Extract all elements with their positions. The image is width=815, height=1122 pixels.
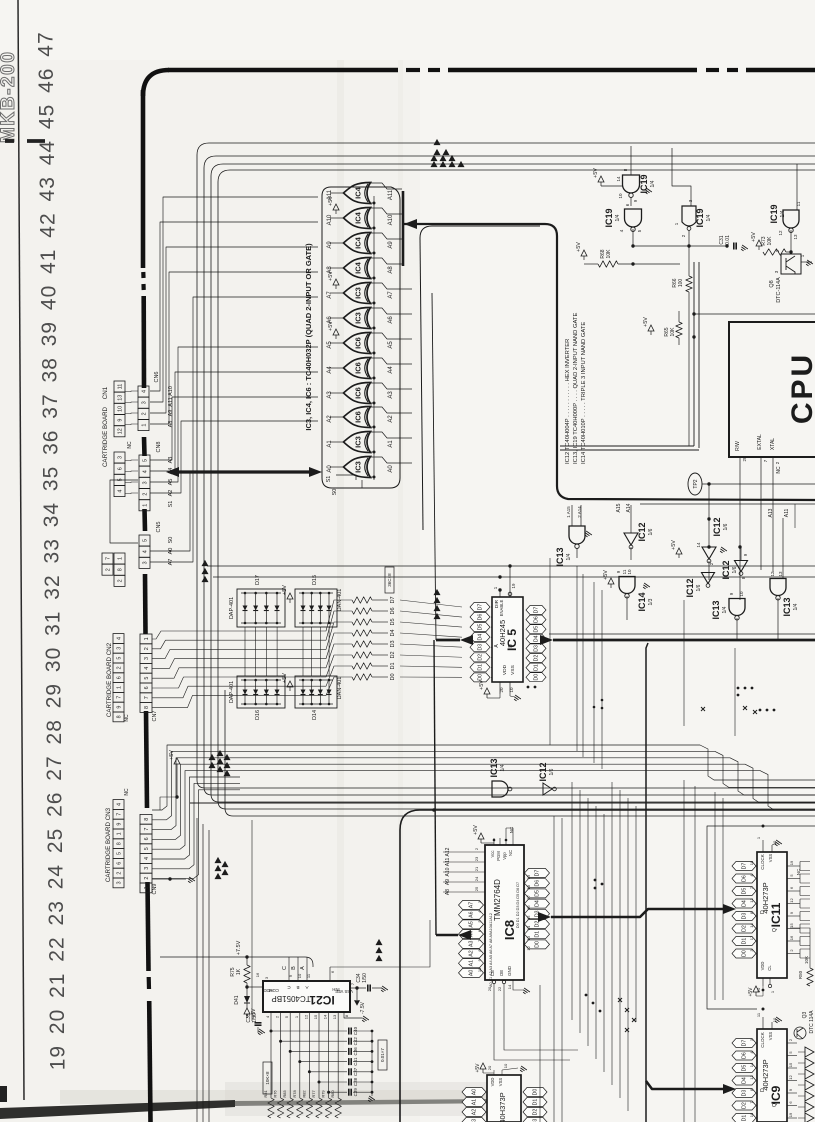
- junction: [371, 1091, 374, 1094]
- svg-text:14: 14: [323, 1014, 328, 1019]
- junction: [599, 1010, 602, 1013]
- svg-text:28: 28: [742, 456, 747, 462]
- main border corner: [143, 70, 169, 96]
- wire: [491, 626, 492, 628]
- svg-text:D0: D0: [533, 1089, 539, 1096]
- svg-text:NC: NC: [124, 714, 130, 722]
- wire: [370, 183, 402, 189]
- wire: [694, 786, 696, 1122]
- IC9 flag D5: [732, 1064, 756, 1073]
- or-gate UIC3 A0: [344, 457, 371, 478]
- wire: [370, 283, 412, 289]
- IC8 flag D0: [525, 940, 550, 949]
- junction: [707, 545, 710, 548]
- wire +7.5V rail: [160, 956, 305, 958]
- svg-text:D5: D5: [390, 618, 396, 625]
- page edge scan line: [18, 0, 24, 1100]
- svg-text:36C×8: 36C×8: [387, 573, 392, 587]
- wire: [756, 1117, 757, 1119]
- junction: [373, 426, 376, 429]
- CN7 pin box 4: [140, 663, 152, 673]
- svg-text:35: 35: [40, 466, 63, 491]
- double box line h: [560, 445, 694, 447]
- IC10 flag right: [523, 1118, 547, 1122]
- bus tap arrow: [376, 939, 383, 945]
- IC5 bottom pins: [499, 682, 501, 694]
- svg-text:A1: A1: [472, 1099, 478, 1105]
- wire: [330, 392, 344, 394]
- wire: [353, 1040, 372, 1042]
- svg-text:33: 33: [41, 538, 64, 563]
- svg-text:IC4: IC4: [354, 186, 363, 199]
- bus tap arrow: [434, 605, 441, 611]
- svg-text:R76: R76: [273, 1090, 278, 1098]
- svg-text:4: 4: [142, 470, 148, 473]
- svg-text:D5: D5: [742, 888, 748, 895]
- bus band wire: [240, 751, 815, 787]
- wire: [152, 745, 240, 810]
- wire: [688, 246, 690, 276]
- or IC19c: [682, 206, 696, 226]
- bus entry arrow: [458, 930, 471, 940]
- wire: [330, 416, 344, 418]
- wire: [152, 751, 240, 819]
- wire: [756, 928, 757, 930]
- svg-text:1/4: 1/4: [706, 214, 712, 221]
- wire: [370, 208, 402, 214]
- wire: [372, 654, 388, 656]
- svg-text:2: 2: [142, 493, 148, 496]
- svg-text:IC13: IC13: [711, 600, 721, 619]
- svg-text:OE: OE: [499, 970, 504, 977]
- svg-text:S0: S0: [332, 489, 338, 496]
- IC5 flag D6 left: [470, 613, 490, 622]
- svg-text:A3: A3: [469, 941, 475, 947]
- junction: [744, 687, 747, 690]
- CN5 bracket: [110, 480, 138, 543]
- IC8 flag A4: [459, 930, 484, 939]
- wire: [308, 1012, 310, 1098]
- resistor R40: [352, 597, 372, 603]
- junction: [737, 687, 740, 690]
- svg-text:20: 20: [487, 1065, 492, 1070]
- junction: [373, 302, 376, 305]
- CN8 pin box 5: [139, 455, 150, 466]
- junction: [371, 1050, 374, 1053]
- svg-text:D1: D1: [390, 662, 396, 669]
- svg-text:100: 100: [678, 279, 684, 288]
- svg-text:CN9: CN9: [152, 883, 158, 894]
- svg-text:S1: S1: [326, 476, 332, 483]
- transistor Q8: [781, 254, 801, 274]
- wire: [319, 627, 321, 676]
- CN8 pin box 4: [139, 466, 150, 477]
- CN7 pin box 7: [140, 693, 152, 703]
- IC8 flag A1: [459, 959, 484, 968]
- svg-text:D5: D5: [478, 624, 484, 631]
- junction: [373, 476, 376, 479]
- capacitor C35: [255, 1022, 262, 1024]
- wire: [756, 890, 757, 892]
- wire: [152, 790, 240, 879]
- svg-text:40H245: 40H245: [498, 620, 507, 646]
- thick wire: [551, 909, 723, 917]
- wire: [400, 644, 462, 647]
- wire: [289, 1012, 291, 1098]
- svg-text:B: B: [291, 966, 297, 970]
- cross mark: [632, 1018, 636, 1022]
- svg-text:+5V: +5V: [593, 168, 599, 178]
- bus tap arrow: [217, 750, 224, 756]
- svg-text:1/3: 1/3: [648, 598, 654, 605]
- junction: [759, 709, 762, 712]
- wire: [484, 943, 485, 945]
- wire: [328, 1012, 330, 1098]
- bus wire 4: [218, 170, 815, 809]
- svg-text:IC3, IC4, IC6 : TC40H032P (QUA: IC3, IC4, IC6 : TC40H032P (QUAD 2-INPUT …: [304, 243, 313, 431]
- buffer triangle: [805, 1058, 814, 1068]
- svg-text:+5V: +5V: [576, 242, 582, 252]
- junction: [373, 202, 376, 205]
- svg-text:IC4: IC4: [354, 211, 363, 224]
- wire: [787, 915, 800, 917]
- wire: [524, 923, 525, 925]
- svg-text:21: 21: [46, 973, 69, 998]
- CN2 pin box 1: [113, 683, 124, 693]
- junction: [498, 575, 501, 578]
- svg-text:IC19: IC19: [769, 204, 779, 223]
- svg-text:30: 30: [42, 647, 65, 672]
- svg-text:D6: D6: [534, 616, 540, 623]
- svg-text:VSS: VSS: [768, 854, 773, 863]
- svg-text:9: 9: [116, 823, 122, 826]
- svg-text:14: 14: [749, 923, 754, 928]
- svg-text:D1: D1: [478, 664, 484, 671]
- svg-text:D4: D4: [534, 635, 540, 642]
- junction: [751, 687, 754, 690]
- svg-text:TP2: TP2: [693, 479, 699, 488]
- lower box h: [430, 809, 815, 811]
- svg-text:IC19: IC19: [639, 174, 649, 193]
- svg-text:1: 1: [141, 424, 147, 427]
- wire link: [125, 423, 138, 426]
- main border left dash3: [141, 284, 145, 290]
- svg-text:D0: D0: [478, 674, 484, 681]
- wire: [400, 633, 462, 637]
- wire: [202, 824, 204, 1122]
- svg-text:38: 38: [38, 357, 61, 382]
- IC9 flag D7: [732, 1039, 756, 1048]
- svg-text:20: 20: [499, 687, 504, 693]
- bus tap arrow: [202, 576, 209, 582]
- wire: [487, 697, 500, 699]
- svg-text:A5: A5: [469, 921, 475, 927]
- CN3 pin box 3: [113, 878, 124, 888]
- svg-text:INH: INH: [332, 987, 339, 992]
- wire: [787, 953, 800, 955]
- wire: [549, 558, 551, 745]
- svg-text:+5V: +5V: [473, 825, 479, 835]
- wire: [270, 1012, 272, 1098]
- svg-text:8: 8: [144, 818, 150, 821]
- svg-text:13: 13: [778, 571, 783, 577]
- wire: [356, 988, 358, 1000]
- wire: [370, 233, 402, 239]
- svg-text:4: 4: [116, 637, 122, 640]
- wire: [561, 818, 563, 1122]
- svg-text:IC3: IC3: [354, 287, 363, 299]
- wire: [484, 933, 485, 935]
- svg-text:11: 11: [117, 384, 123, 390]
- IC11 flag right: [800, 949, 810, 958]
- svg-text:10K: 10K: [606, 249, 612, 259]
- capacitor C42: [348, 1038, 350, 1045]
- svg-text:6: 6: [144, 686, 150, 689]
- svg-text:Q: Q: [772, 1103, 778, 1107]
- svg-text:6: 6: [116, 862, 122, 865]
- svg-text:D16: D16: [255, 710, 261, 720]
- resistor R33: [352, 674, 372, 680]
- junction: [594, 879, 597, 882]
- main border top dash d: [727, 68, 738, 72]
- CN2 pin box 4: [113, 634, 124, 644]
- svg-text:1K: 1K: [236, 968, 242, 975]
- svg-text:19: 19: [511, 583, 516, 589]
- scan dash: [5, 139, 14, 143]
- IC5 flag D3 left: [470, 643, 490, 652]
- wire: [370, 258, 402, 264]
- svg-text:+5V: +5V: [479, 680, 485, 690]
- bus tap arrow: [434, 149, 441, 155]
- svg-text:IC4: IC4: [354, 261, 363, 274]
- svg-text:A0: A0: [469, 970, 475, 976]
- CN3 pin box 5: [113, 849, 124, 859]
- svg-text:40: 40: [38, 285, 61, 310]
- bus tap arrow: [224, 762, 231, 768]
- junction: [738, 545, 741, 548]
- CN1 pin box 3: [114, 452, 125, 463]
- svg-text:13: 13: [117, 395, 123, 401]
- svg-text:1: 1: [142, 504, 148, 507]
- svg-text:37: 37: [39, 393, 62, 418]
- wire: [152, 758, 240, 830]
- svg-text:IC3: IC3: [354, 312, 363, 324]
- bus tap arrow: [434, 589, 441, 595]
- +5V supply: [287, 681, 293, 687]
- IC5 flag D4 left: [470, 633, 490, 642]
- wire: [300, 1061, 347, 1063]
- svg-text:A2: A2: [388, 415, 394, 423]
- main border top h3: [746, 68, 815, 73]
- bus tap arrow: [222, 869, 229, 875]
- svg-text:IC3: IC3: [354, 461, 363, 473]
- svg-text:1/4: 1/4: [615, 214, 621, 221]
- svg-text:1 A15: 1 A15: [566, 506, 571, 518]
- gnd: [187, 877, 195, 884]
- IC9 flag D3: [732, 1089, 756, 1098]
- svg-text:13: 13: [332, 1014, 337, 1019]
- junction: [789, 250, 792, 253]
- bus band wire: [240, 745, 815, 780]
- IC5 flag D2 right: [526, 654, 546, 663]
- or-gate UIC4 A9: [344, 233, 371, 254]
- resistor R75: [244, 965, 250, 983]
- wire: [678, 311, 680, 322]
- wire: [152, 777, 240, 859]
- svg-text:XTAL: XTAL: [770, 438, 776, 450]
- IC8 flag A3: [459, 939, 484, 948]
- svg-text:1/50: 1/50: [362, 973, 368, 983]
- CN2 pin box 9: [113, 702, 124, 712]
- wire: [787, 1117, 797, 1119]
- wire: [271, 1030, 347, 1032]
- svg-text:TC4051BP: TC4051BP: [271, 994, 310, 1003]
- capacitor C39: [348, 1089, 350, 1096]
- wire: [330, 317, 344, 319]
- junction: [318, 1081, 321, 1084]
- wire: [756, 940, 757, 942]
- wire: [603, 814, 605, 1072]
- svg-text:D4: D4: [478, 634, 484, 641]
- svg-text:22: 22: [497, 986, 502, 991]
- wire: [630, 505, 632, 533]
- bus tap arrow: [458, 161, 465, 167]
- junction: [371, 1030, 374, 1033]
- svg-text:12: 12: [789, 898, 794, 903]
- wire: [756, 1055, 757, 1057]
- wire: [329, 1091, 347, 1093]
- wire: [400, 655, 462, 657]
- wire D-bus: [152, 677, 352, 708]
- svg-text:8: 8: [116, 715, 122, 718]
- main border top dash c: [706, 68, 719, 72]
- IC11 flag D6: [732, 874, 756, 883]
- IC21 select B: [297, 957, 299, 981]
- svg-text:+5V: +5V: [328, 271, 334, 281]
- wire: [370, 432, 412, 438]
- CN9 pin box 4: [140, 854, 152, 864]
- svg-text:A8: A8: [388, 266, 394, 274]
- junction: [373, 451, 376, 454]
- svg-text:5: 5: [144, 677, 150, 680]
- +5V supply: [648, 325, 654, 331]
- diode D41: [244, 996, 250, 1003]
- inverter IC12c: [735, 561, 748, 572]
- svg-text:IC6: IC6: [354, 387, 363, 399]
- CN2 pin box 5: [113, 653, 124, 663]
- wire: [595, 806, 597, 1059]
- gnd: [361, 1016, 369, 1023]
- svg-text:A7: A7: [388, 291, 394, 299]
- svg-text:2: 2: [144, 647, 150, 650]
- nand IC19d: [783, 210, 799, 228]
- gnd: [774, 1017, 782, 1024]
- wire: [353, 1050, 372, 1052]
- resistor R38: [352, 619, 372, 625]
- svg-text:VDD: VDD: [760, 962, 765, 971]
- wire: [524, 903, 525, 905]
- CN9 pin box 5: [140, 844, 152, 854]
- svg-text:+7.5V: +7.5V: [236, 940, 242, 955]
- gnd: [513, 695, 521, 702]
- +5V supply: [756, 240, 762, 246]
- junction: [773, 709, 776, 712]
- bus tap arrow: [431, 161, 438, 167]
- bus entry arrow: [723, 1084, 736, 1094]
- CN9 pin box 2: [140, 873, 152, 883]
- -7.5V arrow: [354, 1000, 360, 1005]
- wire: [787, 890, 800, 892]
- svg-text:D0: D0: [742, 950, 748, 957]
- junction: [371, 1070, 374, 1073]
- bus tap arrow: [434, 613, 441, 619]
- +5V supply: [287, 593, 293, 599]
- wire: [585, 1100, 587, 1122]
- main border left v6: [146, 711, 147, 808]
- svg-text:41: 41: [37, 249, 60, 274]
- IC21 select A: [306, 957, 308, 981]
- svg-text:10: 10: [618, 193, 623, 199]
- lower box outline: [400, 810, 430, 830]
- resistor R39: [352, 608, 372, 614]
- svg-text:A6: A6: [388, 316, 394, 324]
- svg-text:7: 7: [144, 828, 150, 831]
- svg-text:D0: D0: [390, 673, 396, 680]
- svg-text:R77: R77: [311, 1090, 316, 1098]
- svg-text:D6: D6: [535, 880, 541, 887]
- wire: [353, 1071, 372, 1073]
- svg-text:+5V: +5V: [282, 585, 288, 595]
- svg-text:4: 4: [141, 390, 147, 393]
- buffer triangle: [805, 1080, 814, 1090]
- capacitor C34: [367, 985, 369, 992]
- wire link: [125, 470, 138, 473]
- wire A0: [150, 471, 318, 551]
- junction: [432, 808, 436, 812]
- IC5 flag D3 right: [526, 644, 546, 653]
- main border left v5: [143, 574, 148, 634]
- svg-text:+5V: +5V: [475, 1063, 481, 1073]
- wire: [787, 1105, 797, 1107]
- wire: [798, 1051, 805, 1053]
- CN1 pin box 2: [114, 575, 125, 586]
- bus entry arrow: [404, 219, 417, 229]
- CN1 pin box 5: [114, 474, 125, 485]
- wire A8: [150, 272, 318, 424]
- wire: [400, 600, 462, 607]
- wire: [576, 566, 578, 751]
- wire: [368, 352, 374, 354]
- svg-text:6: 6: [144, 837, 150, 840]
- svg-text:A5: A5: [388, 341, 394, 349]
- CN1 pin box 13: [114, 392, 125, 403]
- svg-text:0.01×7: 0.01×7: [380, 1048, 385, 1062]
- svg-text:14: 14: [696, 542, 701, 548]
- wire: [207, 565, 815, 567]
- junction: [762, 1008, 765, 1011]
- bus tap arrow: [224, 770, 231, 776]
- svg-text:34: 34: [40, 502, 63, 527]
- wire: [265, 627, 267, 676]
- wire: [368, 277, 374, 279]
- wire: [760, 457, 762, 570]
- main border left v2: [141, 296, 146, 388]
- IC5 flag D1 right: [526, 663, 546, 672]
- svg-text:4: 4: [144, 667, 150, 670]
- junction: [373, 352, 376, 355]
- wire: [370, 358, 412, 364]
- resistor R66: [686, 276, 692, 292]
